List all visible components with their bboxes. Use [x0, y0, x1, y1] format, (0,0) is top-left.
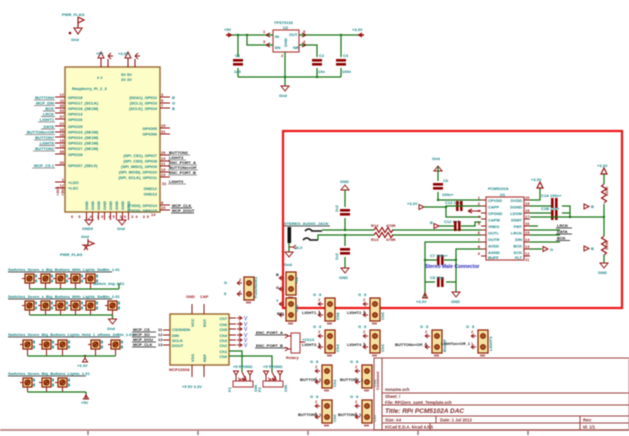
svg-text:GND0: GND0 — [82, 226, 94, 231]
net label MCP_CS — [133, 327, 163, 347]
svg-text:11: 11 — [525, 257, 530, 262]
svg-text:26: 26 — [161, 150, 166, 155]
pot P1 wiper arrow — [242, 372, 246, 380]
svg-text:(SPI_CE1)_GPIO7: (SPI_CE1)_GPIO7 — [123, 153, 157, 158]
svg-text:BUTTONn=Off: BUTTONn=Off — [27, 130, 55, 135]
svg-text:3: 3 — [263, 39, 266, 44]
svg-text:9: 9 — [478, 251, 481, 256]
svg-text:G: G — [310, 394, 313, 399]
svg-text:12: 12 — [60, 92, 65, 97]
connector BUTTON4_1 — [355, 400, 372, 427]
encoder pins — [285, 334, 305, 351]
switch SW18 — [39, 378, 54, 387]
svg-text:2: 2 — [315, 364, 318, 369]
U3 left pin names — [172, 327, 190, 348]
svg-text:B: B — [591, 246, 594, 251]
svg-text:2: 2 — [471, 329, 474, 334]
switch SW1 — [22, 274, 37, 283]
svg-text:CS/SHDN: CS/SHDN — [172, 327, 190, 332]
svg-text:G: G — [310, 359, 313, 364]
svg-text:GPIO26: GPIO26 — [68, 117, 83, 122]
svg-text:6 9 14 20 25 30 34 39: 6 9 14 20 25 30 34 39 — [71, 214, 150, 219]
svg-text:+3.3V: +3.3V — [118, 51, 129, 56]
svg-text:26: 26 — [60, 160, 65, 165]
svg-text:(SCLK)_GPIO4: (SCLK)_GPIO4 — [129, 106, 158, 111]
svg-text:G: G — [276, 285, 279, 290]
switch SW19 — [55, 378, 70, 387]
svg-text:470R: 470R — [386, 223, 396, 228]
wire bus row4 — [28, 392, 87, 395]
svg-text:DVDD: DVDD — [511, 198, 522, 203]
wire Ch1 to pot1 — [229, 351, 242, 372]
wire C8 — [425, 281, 456, 283]
svg-text:ENC_PORT_B: ENC_PORT_B — [256, 343, 283, 348]
svg-text:(SCL1)_GPIO3: (SCL1)_GPIO3 — [130, 101, 158, 106]
svg-text:Gnd: Gnd — [284, 262, 293, 267]
right pin numbers — [161, 92, 166, 210]
svg-text:C13 1u0: C13 1u0 — [445, 200, 461, 205]
svg-text:V: V — [244, 343, 248, 349]
svg-text:CPVDD: CPVDD — [488, 198, 502, 203]
svg-text:U1: U1 — [500, 192, 506, 197]
connector LIGHT3_1 — [318, 330, 335, 357]
svg-text:33: 33 — [60, 108, 65, 113]
wire AVDD branch — [425, 242, 481, 298]
power arrow +3V3 left — [419, 205, 424, 210]
svg-text:BUTTON7: BUTTON7 — [35, 135, 55, 140]
svg-text:BUTTONn=Off_1: BUTTONn=Off_1 — [395, 342, 427, 347]
svg-text:P2: P2 — [257, 386, 262, 392]
svg-text:P1: P1 — [227, 386, 232, 392]
IC U1 PCM5102A body — [486, 197, 524, 260]
svg-text:GND: GND — [186, 294, 195, 299]
port arrow +3V3 out — [357, 33, 362, 38]
switch SW11 — [105, 301, 120, 310]
svg-text:Ch4: Ch4 — [335, 344, 340, 352]
switch SW3 — [53, 274, 68, 283]
svg-text:GND: GND — [120, 201, 125, 210]
svg-text:BCK: BCK — [557, 236, 566, 241]
header left pin stubs — [55, 97, 65, 188]
pot P2 body — [263, 381, 283, 387]
svg-text:BCK: BCK — [45, 106, 54, 111]
svg-text:1u0: 1u0 — [234, 69, 242, 74]
svg-text:CAPP: CAPP — [488, 205, 499, 210]
pot P1 end stubs — [236, 375, 250, 381]
svg-text:C1: C1 — [235, 53, 241, 58]
U3 right pin stubs with arrows — [229, 318, 236, 345]
svg-text:B: B — [591, 204, 594, 209]
pot P1 body — [233, 381, 253, 387]
resistor R13 — [374, 233, 393, 238]
svg-text:19: 19 — [525, 201, 530, 206]
svg-text:7: 7 — [161, 103, 164, 108]
connector BUTTON_1 — [315, 365, 332, 392]
svg-text:LIGHT2_1: LIGHT2_1 — [347, 310, 366, 315]
svg-text:G: G — [358, 324, 361, 329]
svg-text:DATA: DATA — [43, 124, 54, 129]
svg-text:GND: GND — [114, 201, 119, 210]
U3 channel net letters — [244, 316, 248, 349]
connector connA — [279, 272, 296, 299]
pins top (+5V, +3V3) — [101, 58, 135, 67]
svg-text:(SDA1)_GPIO2: (SDA1)_GPIO2 — [129, 95, 158, 100]
svg-text:Ch7: Ch7 — [219, 316, 227, 321]
svg-text:G: G — [350, 359, 353, 364]
svg-text:Switch_Imp 1-01: Switch_Imp 1-01 — [93, 281, 125, 286]
svg-text:LDOM: LDOM — [510, 211, 522, 216]
svg-text:C2: C2 — [319, 53, 325, 58]
header right pin names — [118, 95, 157, 213]
pot P2 wiper arrow — [272, 372, 276, 380]
svg-text:(SPI_MOSI)_GPIO10: (SPI_MOSI)_GPIO10 — [119, 170, 158, 175]
switch SW16 — [108, 340, 123, 349]
svg-text:31: 31 — [161, 129, 166, 134]
wire FMT stub — [530, 225, 538, 227]
svg-text:C6: C6 — [443, 178, 449, 183]
wire BCK — [530, 241, 560, 243]
left pin numbers — [60, 92, 65, 188]
svg-text:GPIO13: GPIO13 — [68, 112, 83, 117]
svg-text:100K: 100K — [604, 186, 609, 196]
svg-text:Function01: Function01 — [253, 276, 258, 298]
port arrow +5V in — [228, 33, 233, 38]
svg-text:20: 20 — [525, 195, 530, 200]
svg-text:B: B — [276, 272, 279, 277]
U3 right pin names — [219, 316, 227, 359]
svg-text:GPIO23_(SE1M): GPIO23_(SE1M) — [68, 130, 99, 135]
svg-text:LIGHT1: LIGHT1 — [40, 117, 55, 122]
resistor R15 — [602, 184, 607, 203]
svg-text:+5 5VGND: +5 5VGND — [263, 364, 283, 369]
svg-text:+3 3V: +3 3V — [77, 363, 88, 368]
wire MCP labels to IC — [163, 330, 170, 345]
svg-text:File: RPiZero_samt_Template.sc: File: RPiZero_samt_Template.sch — [385, 400, 452, 405]
svg-text:BUTTON2_1: BUTTON2_1 — [340, 377, 364, 382]
junction dots audio — [344, 229, 346, 231]
svg-text:+5 5V 3.3V: +5 5V 3.3V — [182, 384, 202, 389]
svg-text:2: 2 — [315, 399, 318, 404]
svg-text:+3.3V: +3.3V — [416, 299, 427, 304]
svg-text:17: 17 — [525, 214, 530, 219]
connector LIGHT2_1 — [363, 298, 380, 325]
svg-text:LIGHT3_1: LIGHT3_1 — [302, 342, 321, 347]
ground regulator — [281, 86, 289, 91]
svg-text:REF: REF — [202, 353, 207, 362]
svg-text:GND: GND — [108, 201, 113, 210]
svg-text:Gnd: Gnd — [279, 93, 288, 98]
U1 right pin numbers — [525, 195, 530, 262]
power arrow +3.3V down — [423, 293, 428, 298]
svg-text:Rev:: Rev: — [583, 418, 592, 423]
switch SW7 — [38, 301, 53, 310]
connector connB — [279, 298, 296, 325]
U1 right pin stubs — [524, 200, 530, 256]
svg-text:+5V0: +5V0 — [60, 186, 65, 196]
svg-text:8: 8 — [478, 244, 481, 249]
capacitor C10 — [551, 210, 558, 220]
wire bus row3 — [28, 355, 116, 357]
svg-text:7: 7 — [478, 237, 481, 242]
svg-text:EN: EN — [275, 45, 281, 50]
ground symbols under header — [85, 220, 93, 225]
svg-text:STEREO_AUDIO_JACK: STEREO_AUDIO_JACK — [284, 221, 329, 226]
connector LIGHT1_1 — [318, 298, 335, 325]
power flag 2 — [60, 234, 94, 257]
svg-text:Switches_Seven_Big_Buttons_Lig: Switches_Seven_Big_Buttons_Lights_Hold_1… — [8, 332, 135, 337]
port arrow VNEG — [434, 224, 439, 229]
header bottom pin stubs — [87, 212, 129, 220]
svg-text:GND: GND — [339, 275, 348, 280]
switch SW14 — [55, 340, 70, 349]
svg-text:Ch1: Ch1 — [332, 379, 337, 387]
svg-text:R14: R14 — [371, 223, 379, 228]
U1 left pin numbers — [478, 195, 481, 256]
capacitor C2 — [312, 59, 322, 66]
svg-text:PCM5102A: PCM5102A — [488, 186, 509, 191]
wire input rail — [232, 35, 358, 86]
switch SW15 — [88, 340, 103, 349]
svg-text:CPGND: CPGND — [488, 211, 503, 216]
connector BUTTONn=Off_1 — [425, 330, 442, 357]
ground arrow down — [452, 292, 460, 297]
row1 pin stubs — [30, 283, 91, 289]
svg-text:Gnd: Gnd — [71, 37, 80, 42]
connector side labels — [332, 312, 447, 422]
svg-text:22: 22 — [60, 121, 65, 126]
svg-text:GND: GND — [84, 201, 89, 210]
U3 bottom pins — [192, 365, 204, 377]
capacitor C6 — [433, 183, 443, 190]
svg-text:BUTTON2: BUTTON2 — [35, 146, 55, 151]
right net labels — [172, 95, 175, 111]
row2 pin stubs — [30, 310, 113, 315]
svg-text:1: 1 — [239, 289, 242, 294]
svg-text:21: 21 — [161, 161, 166, 166]
svg-text:DIN: DIN — [515, 237, 522, 242]
svg-text:RST: RST — [202, 318, 207, 327]
switch SW5 — [83, 274, 98, 283]
svg-text:C7 100n+: C7 100n+ — [430, 253, 448, 258]
svg-text:R11: R11 — [277, 311, 285, 316]
wire C6 top — [437, 166, 439, 181]
svg-text:Gnd: Gnd — [432, 156, 441, 161]
svg-text:GND: GND — [126, 201, 131, 210]
svg-text:14: 14 — [151, 212, 156, 217]
jack ring contact — [303, 238, 318, 240]
svg-text:G: G — [358, 292, 361, 297]
connector LIGHTn=Off_1 — [471, 330, 488, 357]
svg-text:G: G — [350, 394, 353, 399]
svg-text:4: 4 — [303, 39, 306, 44]
encoder S1 body — [291, 333, 300, 353]
xsmt divider: power +3V3 right — [601, 168, 607, 174]
capacitor C8 — [437, 277, 444, 287]
svg-text:GPIO05: GPIO05 — [143, 126, 158, 131]
svg-text:BUFF: BUFF — [488, 255, 499, 260]
svg-text:Switches_Seven_x_Big_Buttons_W: Switches_Seven_x_Big_Buttons_With_Lights… — [8, 294, 121, 299]
resistor R14 — [374, 228, 393, 233]
svg-text:G: G — [313, 292, 316, 297]
switch SW13 — [39, 340, 54, 349]
svg-text:23: 23 — [161, 172, 166, 177]
U1 left pin names — [488, 198, 503, 260]
svg-text:PWR_FLAG: PWR_FLAG — [62, 12, 84, 17]
svg-text:LIGHT6: LIGHT6 — [40, 141, 55, 146]
svg-text:2: 2 — [239, 277, 242, 282]
junction dots regulator — [237, 34, 342, 78]
svg-text:B: B — [172, 106, 175, 111]
wire bus row2 — [30, 315, 113, 319]
svg-text:LIGHT1_1: LIGHT1_1 — [302, 310, 321, 315]
svg-text:IN: IN — [275, 34, 279, 39]
capacitor C5 — [340, 209, 350, 216]
svg-text:12: 12 — [525, 251, 530, 256]
wire DGND loop — [530, 206, 570, 217]
wire C5 branch — [344, 190, 346, 230]
svg-text:noname.sch: noname.sch — [385, 387, 410, 392]
svg-text:GND13: GND13 — [144, 192, 158, 197]
svg-text:R13: R13 — [371, 237, 379, 242]
svg-text:2: 2 — [363, 297, 366, 302]
svg-text:Gnd: Gnd — [107, 326, 116, 331]
svg-text:B: B — [430, 220, 433, 225]
svg-text:10n: 10n — [318, 69, 325, 74]
svg-text:Gnd: Gnd — [81, 234, 90, 239]
svg-text:OUTL: OUTL — [488, 231, 499, 236]
svg-text:(SPI_MISO)_GPIO9: (SPI_MISO)_GPIO9 — [121, 164, 158, 169]
svg-text:LRCK: LRCK — [43, 112, 54, 117]
header bottom GND pin names (vertical) — [84, 201, 131, 210]
svg-text:Id: 1/1: Id: 1/1 — [583, 425, 596, 430]
svg-text:2: 2 — [425, 329, 428, 334]
svg-text:2: 2 — [281, 53, 284, 58]
svg-text:KiCad E.D.A. kicad 4.0.5: KiCad E.D.A. kicad 4.0.5 — [385, 425, 434, 430]
power +3V3 above U1 — [537, 182, 543, 188]
svg-text:Raspberry_Pi_2_3: Raspberry_Pi_2_3 — [72, 86, 107, 91]
switch SW10 — [83, 301, 98, 310]
svg-text:1: 1 — [263, 29, 266, 34]
svg-text:Comment: Comment — [375, 371, 380, 390]
U1 right pin names — [510, 198, 522, 260]
wire Ch0 to pot2 — [229, 356, 272, 372]
switch SW6 — [22, 301, 37, 310]
svg-text:2: 2 — [355, 364, 358, 369]
svg-text:DGND: DGND — [510, 205, 522, 210]
svg-text:U2: U2 — [283, 25, 289, 30]
svg-text:GPIO22_(SE1M): GPIO22_(SE1M) — [68, 141, 99, 146]
svg-text:MCP23S08: MCP23S08 — [169, 367, 190, 372]
capacitor C3 — [336, 59, 346, 66]
svg-text:+LDO: +LDO — [68, 180, 79, 185]
arrow port G SCK — [543, 247, 548, 252]
svg-text:LIGHTS: LIGHTS — [488, 336, 493, 351]
arrows on U3 channel pins — [237, 316, 242, 347]
ground above connA — [285, 252, 293, 257]
capacitor C9 — [551, 198, 558, 208]
svg-text:GND: GND — [283, 38, 288, 47]
svg-text:CAPM: CAPM — [488, 218, 500, 223]
svg-text:470R: 470R — [386, 237, 396, 242]
svg-text:Ch2: Ch2 — [294, 304, 299, 312]
svg-text:VNEG: VNEG — [488, 224, 499, 229]
switch SW2 — [38, 274, 53, 283]
svg-text:MCP_DIN: MCP_DIN — [36, 101, 54, 106]
frame tick marks — [88, 431, 528, 435]
pin arrow into CPGND — [468, 209, 481, 213]
svg-text:GPIO17_(SCLK): GPIO17_(SCLK) — [68, 101, 99, 106]
svg-text:GND: GND — [96, 201, 101, 210]
switch SW4 — [68, 274, 83, 283]
jack ground stub — [288, 243, 290, 252]
svg-text:DATA: DATA — [557, 229, 568, 234]
svg-text:14: 14 — [525, 237, 530, 242]
svg-text:ENC_PORT_A: ENC_PORT_A — [256, 330, 283, 335]
left net labels into header — [27, 95, 55, 168]
svg-text:# #: # # — [97, 75, 103, 80]
svg-text:3: 3 — [161, 92, 164, 97]
svg-text:C1B 10u+: C1B 10u+ — [541, 206, 560, 211]
connector X1 Function01 — [237, 277, 254, 304]
svg-text:FLT: FLT — [515, 255, 523, 260]
svg-text:2: 2 — [478, 201, 481, 206]
svg-text:Ch6: Ch6 — [335, 312, 340, 320]
svg-text:G: G — [550, 247, 553, 252]
svg-text:BUTTON_1: BUTTON_1 — [300, 377, 322, 382]
svg-text:MCP_DOUT: MCP_DOUT — [172, 208, 195, 213]
svg-text:LIGHT0: LIGHT0 — [169, 179, 184, 184]
svg-text:OUT: OUT — [289, 32, 298, 37]
power arrow +3.3V row3 — [83, 356, 88, 362]
svg-text:GND: GND — [102, 201, 107, 210]
svg-text:FMT: FMT — [514, 224, 523, 229]
svg-text:VSS: VSS — [190, 354, 195, 362]
svg-text:BUTTON4: BUTTON4 — [35, 95, 55, 100]
svg-text:15: 15 — [525, 230, 530, 235]
svg-text:100n+: 100n+ — [442, 192, 454, 197]
wire SCK — [530, 248, 542, 250]
switch SW8 — [53, 301, 68, 310]
svg-text:G: G — [313, 324, 316, 329]
svg-text:100K: 100K — [604, 240, 609, 250]
svg-text:29: 29 — [161, 123, 166, 128]
svg-text:GPIO28: GPIO28 — [68, 152, 83, 157]
svg-text:MCP_CLK: MCP_CLK — [133, 342, 152, 347]
svg-text:+3.3V: +3.3V — [597, 163, 608, 168]
title block frame — [374, 358, 629, 430]
switch SW9 — [68, 301, 83, 310]
wire DVDD to +3V3 — [530, 188, 540, 200]
power flag PWR_FLAG (top) — [62, 12, 84, 42]
svg-text:VCC: VCC — [190, 318, 195, 327]
svg-text:18: 18 — [60, 132, 65, 137]
svg-text:3V 3V: 3V 3V — [121, 77, 132, 82]
svg-text:Sheet: /: Sheet: / — [385, 394, 401, 399]
ground divider — [600, 263, 608, 268]
svg-text:Ch5: Ch5 — [380, 312, 385, 320]
svg-text:XSMT: XSMT — [511, 218, 523, 223]
wire bus row1 — [30, 283, 120, 289]
svg-text:+5V: +5V — [96, 51, 104, 56]
svg-text:C8 10u: C8 10u — [430, 275, 444, 280]
capacitor C1 — [233, 59, 243, 66]
svg-text:+LSC: +LSC — [68, 186, 78, 191]
resistor R16 — [602, 236, 607, 255]
svg-text:Ch3: Ch3 — [380, 344, 385, 352]
ground row2 — [109, 319, 117, 324]
svg-text:G: G — [172, 101, 175, 106]
svg-text:8: 8 — [224, 291, 227, 296]
